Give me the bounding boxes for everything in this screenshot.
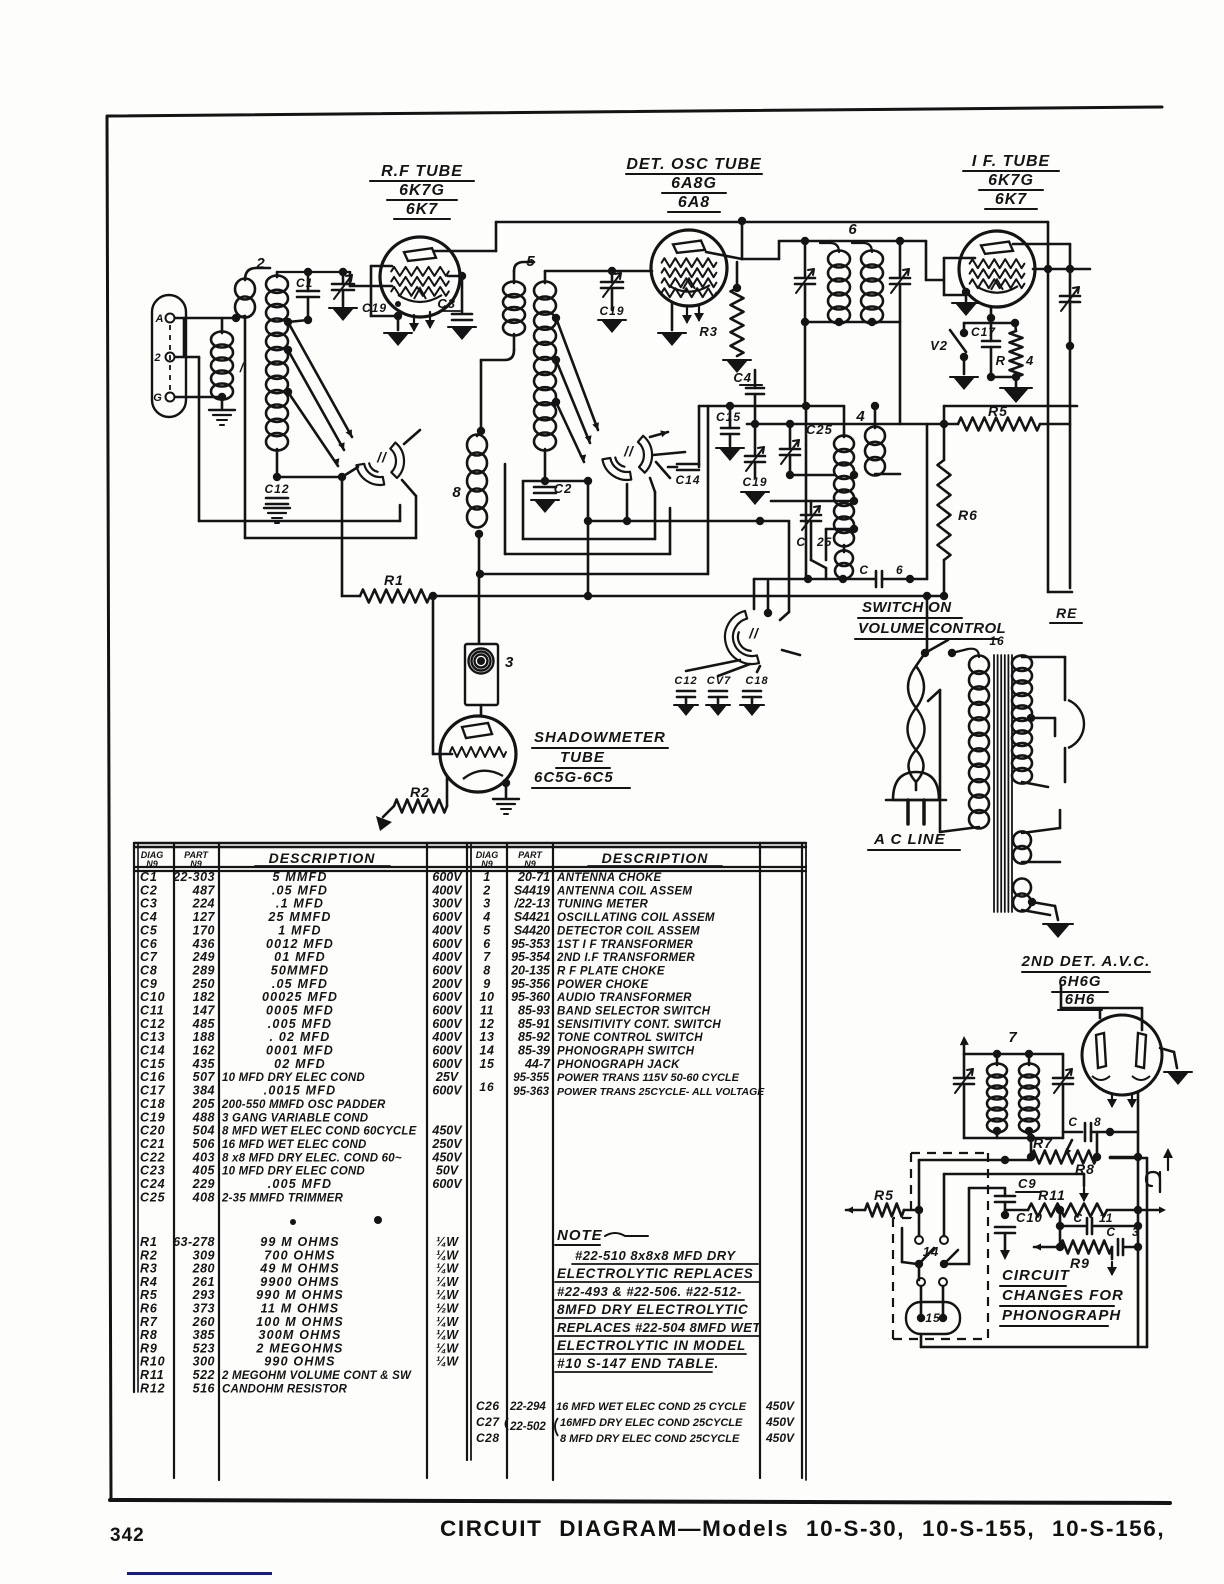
svg-text:8 MFD WET ELEC COND 60CYCLE: 8 MFD WET ELEC COND 60CYCLE <box>222 1126 417 1138</box>
svg-text:4: 4 <box>482 910 490 924</box>
svg-text:147: 147 <box>193 1004 216 1018</box>
svg-text:280: 280 <box>192 1262 215 1276</box>
svg-text:12: 12 <box>480 1017 495 1031</box>
svg-text:R12: R12 <box>140 1381 165 1395</box>
svg-text:6K7: 6K7 <box>995 191 1027 208</box>
svg-text:250V: 250V <box>431 1137 463 1151</box>
svg-text:450V: 450V <box>431 1150 463 1164</box>
svg-text:6K7G: 6K7G <box>988 172 1034 189</box>
svg-text:R9: R9 <box>1070 1255 1090 1271</box>
svg-text:C: C <box>1068 1115 1078 1129</box>
svg-text:2 MEGOHM VOLUME CONT & SW: 2 MEGOHM VOLUME CONT & SW <box>221 1370 412 1382</box>
svg-text:22-294: 22-294 <box>509 1401 546 1413</box>
svg-text:14: 14 <box>480 1044 495 1058</box>
svg-text:16 MFD WET ELEC COND: 16 MFD WET ELEC COND <box>222 1139 367 1151</box>
svg-text:403: 403 <box>192 1150 215 1164</box>
svg-text:C9: C9 <box>140 977 158 991</box>
svg-text:OSCILLATING COIL ASSEM: OSCILLATING COIL ASSEM <box>557 912 715 924</box>
svg-text:600V: 600V <box>432 1084 463 1098</box>
svg-text:516: 516 <box>193 1381 216 1395</box>
svg-text:95-355: 95-355 <box>513 1072 549 1084</box>
svg-text:3: 3 <box>1132 1225 1140 1239</box>
svg-text:S4420: S4420 <box>514 923 550 937</box>
svg-text:C14: C14 <box>675 473 700 487</box>
svg-text:R9: R9 <box>140 1341 158 1355</box>
svg-text:450V: 450V <box>431 1124 463 1138</box>
svg-text:SENSITIVITY CONT. SWITCH: SENSITIVITY CONT. SWITCH <box>557 1019 721 1031</box>
svg-text:6H6G: 6H6G <box>1058 973 1101 990</box>
svg-text:20-71: 20-71 <box>517 870 550 884</box>
svg-text:R6: R6 <box>958 507 978 523</box>
svg-text:A: A <box>155 313 165 325</box>
svg-text:C13: C13 <box>140 1030 165 1044</box>
svg-text:5: 5 <box>483 923 491 937</box>
svg-text:95-356: 95-356 <box>511 977 551 991</box>
svg-text:.0015 MFD: .0015 MFD <box>264 1084 337 1098</box>
svg-text:N9: N9 <box>190 859 202 869</box>
svg-text:990 OHMS: 990 OHMS <box>264 1355 335 1369</box>
svg-text:C3: C3 <box>437 296 456 311</box>
svg-text:AUDIO TRANSFORMER: AUDIO TRANSFORMER <box>556 992 692 1004</box>
svg-text:436: 436 <box>192 937 216 951</box>
svg-text:16 MFD WET ELEC COND 25 CYCLE: 16 MFD WET ELEC COND 25 CYCLE <box>556 1401 747 1413</box>
svg-text:REPLACES #22-504 8MFD WET: REPLACES #22-504 8MFD WET <box>557 1320 761 1335</box>
svg-text:485: 485 <box>192 1017 216 1031</box>
svg-text:300V: 300V <box>432 897 463 911</box>
svg-text:NOTE: NOTE <box>557 1227 603 1244</box>
svg-text:700 OHMS: 700 OHMS <box>264 1248 335 1262</box>
svg-text:487: 487 <box>192 883 216 897</box>
svg-text:C5: C5 <box>140 923 158 937</box>
svg-text:600V: 600V <box>432 1017 463 1031</box>
svg-text:R7: R7 <box>1033 1135 1053 1151</box>
svg-text:C23: C23 <box>140 1164 165 1178</box>
svg-text:C19: C19 <box>140 1110 165 1124</box>
svg-text:R11: R11 <box>140 1368 164 1382</box>
svg-text:85-92: 85-92 <box>518 1030 550 1044</box>
svg-text:R11: R11 <box>1038 1187 1066 1203</box>
svg-text:DESCRIPTION: DESCRIPTION <box>602 850 709 866</box>
svg-text:C12: C12 <box>140 1017 165 1031</box>
svg-text:600V: 600V <box>432 937 463 951</box>
svg-text:523: 523 <box>193 1341 215 1355</box>
svg-text:6K7G: 6K7G <box>399 182 445 199</box>
svg-text:CIRCUIT: CIRCUIT <box>1002 1267 1071 1284</box>
svg-text:4: 4 <box>855 408 865 425</box>
svg-text:8 x8 MFD DRY ELEC. COND 60~: 8 x8 MFD DRY ELEC. COND 60~ <box>222 1152 402 1164</box>
svg-text:¼W: ¼W <box>436 1355 459 1369</box>
svg-text:95-360: 95-360 <box>511 990 550 1004</box>
svg-text:R3: R3 <box>140 1262 158 1276</box>
svg-text:162: 162 <box>193 1044 215 1058</box>
svg-text:C28: C28 <box>476 1431 500 1445</box>
svg-text:V2: V2 <box>930 338 948 353</box>
svg-text:C19: C19 <box>599 304 624 318</box>
svg-text:C4: C4 <box>140 910 158 924</box>
svg-text:C20: C20 <box>140 1124 165 1138</box>
svg-text:6: 6 <box>483 937 491 951</box>
svg-text:10 MFD DRY ELEC COND: 10 MFD DRY ELEC COND <box>222 1072 365 1084</box>
svg-text:289: 289 <box>192 964 215 978</box>
svg-text:00025 MFD: 00025 MFD <box>262 990 338 1004</box>
svg-text:¼W: ¼W <box>436 1275 459 1289</box>
svg-text:.005 MFD: .005 MFD <box>268 1177 332 1191</box>
svg-text:C18: C18 <box>140 1097 165 1111</box>
svg-text:408: 408 <box>192 1190 215 1204</box>
svg-text:200V: 200V <box>431 977 463 991</box>
svg-text:205: 205 <box>192 1097 216 1111</box>
svg-text:C25: C25 <box>806 422 833 437</box>
svg-text:.05 MFD: .05 MFD <box>272 883 328 897</box>
svg-text:3: 3 <box>505 654 514 671</box>
svg-text:6A8: 6A8 <box>678 194 710 211</box>
svg-text:450V: 450V <box>765 1399 795 1413</box>
svg-text:8: 8 <box>1094 1115 1102 1129</box>
svg-text:C: C <box>796 535 806 549</box>
svg-text:49 M OHMS: 49 M OHMS <box>259 1262 340 1276</box>
svg-text:600V: 600V <box>432 1177 463 1191</box>
svg-text:A C LINE: A C LINE <box>873 831 946 848</box>
svg-text:C25: C25 <box>140 1190 166 1204</box>
svg-text:95-363: 95-363 <box>513 1086 549 1098</box>
svg-text:C1: C1 <box>140 870 158 884</box>
svg-text:R5: R5 <box>874 1187 894 1203</box>
svg-text:C: C <box>1073 1211 1083 1225</box>
svg-text:182: 182 <box>193 990 215 1004</box>
svg-text:#22-493 & #22-506. #22-512-: #22-493 & #22-506. #22-512- <box>557 1284 742 1299</box>
svg-text:85-39: 85-39 <box>518 1044 550 1058</box>
svg-text:506: 506 <box>193 1137 216 1151</box>
svg-text:C12: C12 <box>264 482 289 496</box>
svg-text:C17: C17 <box>140 1084 166 1098</box>
svg-text:20-135: 20-135 <box>510 964 551 978</box>
svg-text:C26: C26 <box>476 1399 500 1413</box>
svg-text:C2: C2 <box>140 883 158 897</box>
svg-text:10 MFD DRY ELEC COND: 10 MFD DRY ELEC COND <box>222 1166 365 1178</box>
svg-text:CV7: CV7 <box>707 675 731 687</box>
svg-text:8: 8 <box>452 484 461 501</box>
svg-text:01 MFD: 01 MFD <box>274 950 326 964</box>
svg-text:450V: 450V <box>765 1415 795 1429</box>
svg-text:. 02 MFD: . 02 MFD <box>270 1030 331 1044</box>
svg-text:0005 MFD: 0005 MFD <box>266 1004 334 1018</box>
svg-text:C14: C14 <box>140 1044 165 1058</box>
svg-text:170: 170 <box>193 923 215 937</box>
svg-text:R4: R4 <box>140 1275 158 1289</box>
svg-text:2-35 MMFD TRIMMER: 2-35 MMFD TRIMMER <box>221 1192 343 1204</box>
svg-text:260: 260 <box>192 1315 215 1329</box>
svg-text:02 MFD: 02 MFD <box>274 1057 326 1071</box>
svg-text:5 MMFD: 5 MMFD <box>272 870 327 884</box>
svg-text:N9: N9 <box>481 859 493 869</box>
svg-text:2ND DET. A.V.C.: 2ND DET. A.V.C. <box>1021 953 1151 970</box>
svg-text:10: 10 <box>480 990 495 1004</box>
svg-text:¼W: ¼W <box>436 1288 459 1302</box>
svg-text:.1 MFD: .1 MFD <box>276 897 324 911</box>
svg-text:261: 261 <box>192 1275 215 1289</box>
svg-text:SWITCH ON: SWITCH ON <box>862 599 952 616</box>
svg-text:R2: R2 <box>140 1248 158 1262</box>
svg-text:100 M OHMS: 100 M OHMS <box>256 1315 344 1329</box>
svg-text:I F. TUBE: I F. TUBE <box>972 153 1051 170</box>
svg-text:½W: ½W <box>436 1302 459 1316</box>
svg-text:C: C <box>859 563 869 577</box>
svg-text:R: R <box>996 353 1006 368</box>
svg-text:2: 2 <box>482 883 490 897</box>
svg-text:25 MMFD: 25 MMFD <box>267 910 331 924</box>
svg-text:224: 224 <box>192 897 215 911</box>
svg-text:DET. OSC TUBE: DET. OSC TUBE <box>626 156 762 173</box>
svg-text:R1: R1 <box>384 572 404 588</box>
svg-text:3: 3 <box>483 897 490 911</box>
svg-text:RE: RE <box>1056 605 1077 621</box>
svg-text:R10: R10 <box>140 1355 165 1369</box>
svg-text:¼W: ¼W <box>436 1328 459 1342</box>
svg-text:16: 16 <box>989 634 1004 648</box>
svg-text:POWER TRANS 25CYCLE- ALL VOLTA: POWER TRANS 25CYCLE- ALL VOLTAGE <box>557 1086 765 1098</box>
svg-text:522: 522 <box>193 1368 215 1382</box>
svg-text:2: 2 <box>153 352 161 364</box>
svg-text:R1: R1 <box>140 1235 158 1249</box>
svg-text:249: 249 <box>192 950 215 964</box>
svg-text:300M OHMS: 300M OHMS <box>258 1328 341 1342</box>
svg-text:16MFD DRY ELEC COND 25CYCLE: 16MFD DRY ELEC COND 25CYCLE <box>560 1417 743 1429</box>
svg-text:C3: C3 <box>140 897 158 911</box>
svg-text:63-278: 63-278 <box>173 1235 215 1249</box>
svg-text:DETECTOR COIL ASSEM: DETECTOR COIL ASSEM <box>557 925 700 937</box>
svg-text:C8: C8 <box>140 964 158 978</box>
svg-text:1: 1 <box>483 870 490 884</box>
svg-text:6K7: 6K7 <box>406 201 438 218</box>
svg-text:990 M OHMS: 990 M OHMS <box>256 1288 344 1302</box>
svg-text:C4: C4 <box>733 370 752 385</box>
svg-text:G: G <box>153 392 163 404</box>
svg-text:600V: 600V <box>432 1057 463 1071</box>
svg-text:373: 373 <box>193 1302 215 1316</box>
svg-text:C21: C21 <box>140 1137 165 1151</box>
svg-text:13: 13 <box>480 1030 495 1044</box>
svg-text:450V: 450V <box>765 1431 795 1445</box>
svg-text:8MFD DRY ELECTROLYTIC: 8MFD DRY ELECTROLYTIC <box>557 1302 749 1317</box>
svg-text:300: 300 <box>193 1355 215 1369</box>
svg-text:6C5G-6C5: 6C5G-6C5 <box>534 769 614 786</box>
svg-text:R6: R6 <box>140 1302 158 1316</box>
svg-text:16: 16 <box>479 1080 494 1094</box>
svg-text:600V: 600V <box>432 1044 463 1058</box>
svg-text:C9: C9 <box>1018 1176 1037 1191</box>
svg-text:CANDOHM RESISTOR: CANDOHM RESISTOR <box>222 1383 348 1395</box>
svg-text:200-550 MMFD OSC PADDER: 200-550 MMFD OSC PADDER <box>221 1099 386 1111</box>
svg-text:0012 MFD: 0012 MFD <box>266 937 334 951</box>
svg-text:C7: C7 <box>140 950 158 964</box>
svg-text:3 GANG VARIABLE COND: 3 GANG VARIABLE COND <box>222 1112 368 1124</box>
svg-text:9900 OHMS: 9900 OHMS <box>260 1275 340 1289</box>
svg-text:95-353: 95-353 <box>511 937 550 951</box>
svg-text:C1: C1 <box>296 276 313 290</box>
svg-text:400V: 400V <box>431 950 463 964</box>
svg-text:6: 6 <box>896 563 904 577</box>
svg-text:R3: R3 <box>699 324 718 339</box>
svg-text:7: 7 <box>483 950 491 964</box>
svg-text:405: 405 <box>192 1164 216 1178</box>
svg-text:488: 488 <box>192 1110 215 1124</box>
svg-text:TUNING METER: TUNING METER <box>557 899 649 911</box>
svg-text:400V: 400V <box>431 883 463 897</box>
svg-text:250: 250 <box>192 977 215 991</box>
svg-text:.05 MFD: .05 MFD <box>272 977 328 991</box>
svg-text:44-7: 44-7 <box>524 1057 551 1071</box>
svg-text:25: 25 <box>816 535 832 549</box>
svg-text:14: 14 <box>923 1244 939 1259</box>
svg-text:PHONOGRAPH SWITCH: PHONOGRAPH SWITCH <box>557 1046 695 1058</box>
svg-text:#10 S-147 END TABLE.: #10 S-147 END TABLE. <box>557 1356 719 1371</box>
svg-text:C11: C11 <box>140 1004 164 1018</box>
svg-text:342: 342 <box>110 1525 145 1546</box>
svg-text:CIRCUIT DIAGRAM—Models 10-S-30: CIRCUIT DIAGRAM—Models 10-S-30, 10-S-155… <box>440 1516 1165 1541</box>
svg-text:4: 4 <box>1025 353 1034 368</box>
svg-text:ELECTROLYTIC REPLACES: ELECTROLYTIC REPLACES <box>557 1266 754 1281</box>
svg-text:6A8G: 6A8G <box>671 175 717 192</box>
svg-text:95-354: 95-354 <box>511 950 550 964</box>
svg-text:N9: N9 <box>146 859 158 869</box>
svg-text:8: 8 <box>483 964 490 978</box>
svg-text:¼W: ¼W <box>436 1262 459 1276</box>
svg-text://: // <box>748 625 760 641</box>
svg-text:400V: 400V <box>431 923 463 937</box>
svg-text:229: 229 <box>192 1177 215 1191</box>
svg-text:C10: C10 <box>140 990 165 1004</box>
svg-text:C19: C19 <box>362 301 387 315</box>
svg-text:C27: C27 <box>476 1415 500 1429</box>
svg-text:C15: C15 <box>140 1057 166 1071</box>
svg-text:384: 384 <box>193 1084 215 1098</box>
svg-text:R2: R2 <box>410 784 430 800</box>
svg-text:POWER CHOKE: POWER CHOKE <box>557 979 648 991</box>
svg-text://: // <box>376 449 388 465</box>
svg-text:6H6: 6H6 <box>1065 991 1096 1008</box>
svg-text:#22-510 8x8x8 MFD DRY: #22-510 8x8x8 MFD DRY <box>575 1248 736 1263</box>
svg-text:C19: C19 <box>742 475 767 489</box>
svg-text:85-91: 85-91 <box>518 1017 550 1031</box>
svg-text:TONE CONTROL SWITCH: TONE CONTROL SWITCH <box>557 1032 703 1044</box>
svg-text:C18: C18 <box>745 675 768 687</box>
svg-text:22-303: 22-303 <box>172 870 215 884</box>
svg-text:ANTENNA COIL ASSEM: ANTENNA COIL ASSEM <box>556 885 692 897</box>
svg-text:PHONOGRAPH JACK: PHONOGRAPH JACK <box>557 1059 680 1071</box>
svg-text:11 M OHMS: 11 M OHMS <box>261 1302 340 1316</box>
svg-text:SHADOWMETER: SHADOWMETER <box>534 729 666 746</box>
svg-text:85-93: 85-93 <box>518 1004 550 1018</box>
svg-text:15: 15 <box>480 1057 495 1071</box>
svg-text:50MMFD: 50MMFD <box>271 964 330 978</box>
svg-text:293: 293 <box>192 1288 215 1302</box>
svg-text:600V: 600V <box>432 870 463 884</box>
svg-text:¼W: ¼W <box>436 1235 459 1249</box>
svg-text:504: 504 <box>193 1124 215 1138</box>
svg-text:2ND I.F TRANSFORMER: 2ND I.F TRANSFORMER <box>556 952 695 964</box>
svg-text:/22-13: /22-13 <box>514 897 550 911</box>
svg-text:N9: N9 <box>524 859 536 869</box>
svg-text:2 MEGOHMS: 2 MEGOHMS <box>255 1341 343 1355</box>
svg-text:C15: C15 <box>716 410 741 424</box>
svg-text:600V: 600V <box>432 990 463 1004</box>
svg-text:435: 435 <box>192 1057 216 1071</box>
svg-text:385: 385 <box>193 1328 216 1342</box>
svg-text:6: 6 <box>848 221 857 238</box>
svg-text:99 M OHMS: 99 M OHMS <box>260 1235 340 1249</box>
svg-text:R.F TUBE: R.F TUBE <box>381 163 463 180</box>
svg-text:POWER TRANS 115V 50-60 CYCLE: POWER TRANS 115V 50-60 CYCLE <box>557 1072 740 1084</box>
svg-text:600V: 600V <box>432 910 463 924</box>
svg-text:400V: 400V <box>431 1030 463 1044</box>
svg-text:22-502: 22-502 <box>509 1421 546 1433</box>
svg-text:C2: C2 <box>554 481 573 496</box>
svg-text:S4421: S4421 <box>514 910 550 924</box>
svg-text:507: 507 <box>193 1070 216 1084</box>
svg-text:C17: C17 <box>971 325 996 339</box>
svg-text:CHANGES FOR: CHANGES FOR <box>1002 1287 1124 1304</box>
svg-text:15: 15 <box>925 1311 940 1325</box>
svg-text:309: 309 <box>193 1248 215 1262</box>
svg-text:1 MFD: 1 MFD <box>278 923 322 937</box>
svg-text:C22: C22 <box>140 1150 165 1164</box>
svg-text:¼W: ¼W <box>436 1341 459 1355</box>
svg-text:C: C <box>1106 1225 1116 1239</box>
svg-text:VOLUME CONTROL: VOLUME CONTROL <box>858 620 1006 637</box>
svg-text:DESCRIPTION: DESCRIPTION <box>269 850 376 866</box>
svg-text:¼W: ¼W <box>436 1248 459 1262</box>
svg-text:127: 127 <box>193 910 216 924</box>
svg-text:C12: C12 <box>674 675 697 687</box>
svg-text:7: 7 <box>1008 1029 1017 1046</box>
svg-text:.005 MFD: .005 MFD <box>268 1017 332 1031</box>
svg-text:2: 2 <box>255 255 265 272</box>
svg-text:R5: R5 <box>140 1288 158 1302</box>
svg-text:8 MFD DRY ELEC COND 25CYCLE: 8 MFD DRY ELEC COND 25CYCLE <box>560 1433 740 1445</box>
svg-text:9: 9 <box>483 977 490 991</box>
svg-text:BAND SELECTOR SWITCH: BAND SELECTOR SWITCH <box>557 1006 711 1018</box>
svg-text:600V: 600V <box>432 1004 463 1018</box>
svg-text:1ST I F TRANSFORMER: 1ST I F TRANSFORMER <box>557 939 693 951</box>
svg-text:0001 MFD: 0001 MFD <box>266 1044 334 1058</box>
svg-text:ELECTROLYTIC IN MODEL: ELECTROLYTIC IN MODEL <box>557 1338 746 1353</box>
svg-text:R8: R8 <box>140 1328 158 1342</box>
svg-text:TUBE: TUBE <box>560 749 605 766</box>
svg-text:11: 11 <box>480 1004 494 1018</box>
svg-text:188: 188 <box>193 1030 215 1044</box>
svg-text:600V: 600V <box>432 964 463 978</box>
svg-text:R7: R7 <box>140 1315 158 1329</box>
svg-text:11: 11 <box>1099 1211 1113 1225</box>
svg-text:¼W: ¼W <box>436 1315 459 1329</box>
svg-text:PHONOGRAPH: PHONOGRAPH <box>1002 1307 1121 1324</box>
svg-text:C16: C16 <box>140 1070 166 1084</box>
svg-text:ANTENNA CHOKE: ANTENNA CHOKE <box>556 872 661 884</box>
svg-text:C6: C6 <box>140 937 158 951</box>
svg-text://: // <box>623 443 635 459</box>
svg-text:C24: C24 <box>140 1177 165 1191</box>
svg-text:R F PLATE CHOKE: R F PLATE CHOKE <box>557 966 665 978</box>
svg-text:50V: 50V <box>436 1164 460 1178</box>
svg-text:S4419: S4419 <box>514 883 550 897</box>
svg-text:25V: 25V <box>435 1070 460 1084</box>
